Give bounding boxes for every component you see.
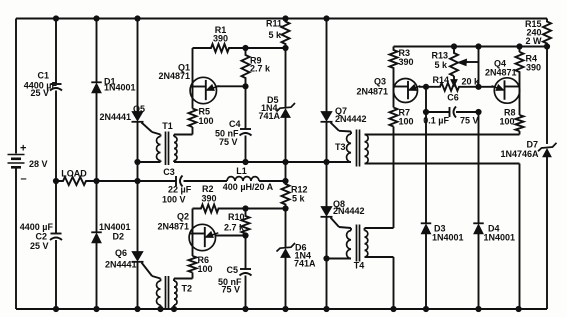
svg-text:1N4001: 1N4001: [104, 83, 136, 93]
wire T1 left winding bottom to column: [138, 161, 161, 163]
resistor R5 100: [189, 107, 214, 128]
svg-text:R10: R10: [228, 212, 245, 222]
svg-text:100: 100: [399, 117, 414, 127]
resistor R14 20k: [426, 75, 480, 91]
wire node to C6 line left: [425, 87, 427, 112]
junction Q8 / T4: [324, 256, 329, 261]
svg-text:75 V: 75 V: [219, 137, 238, 147]
junction dots on top rail: [53, 16, 329, 21]
transformer T3 right winding: [365, 135, 369, 164]
wire Q6 gate lead: [142, 263, 161, 279]
wire rail to R4: [519, 47, 521, 53]
wire R6 to T2: [192, 273, 194, 279]
resistor R11 5k: [266, 19, 290, 49]
svg-text:T3: T3: [335, 142, 346, 152]
wire mid rail to Q8 anode: [326, 162, 328, 207]
wire Q1 base column: [192, 76, 194, 109]
junction R13 top: [451, 44, 456, 49]
wire D1 column top: [96, 19, 98, 83]
svg-text:LOAD: LOAD: [61, 169, 87, 179]
svg-text:0.1 µF: 0.1 µF: [423, 116, 449, 126]
diode D3 1N4001: [421, 223, 464, 242]
svg-text:25 V: 25 V: [30, 241, 49, 251]
wire Q5 anode column: [137, 19, 139, 112]
resistor R1 390: [193, 25, 246, 52]
svg-text:1N4746A: 1N4746A: [500, 149, 539, 159]
svg-text:2N4442: 2N4442: [333, 206, 365, 216]
svg-text:1N4001: 1N4001: [484, 233, 516, 243]
wire Q7 cathode to mid rail: [326, 122, 328, 162]
wire R11 node to D5: [285, 48, 287, 108]
wire Q2 emitter lead: [216, 235, 246, 237]
wire mid rail to L1 node: [285, 162, 287, 181]
battery B1 28 V: [8, 143, 48, 186]
svg-text:T1: T1: [162, 121, 173, 131]
svg-text:390: 390: [202, 194, 217, 204]
transformer T2 left winding: [157, 279, 161, 310]
transformer T2 core: [166, 276, 169, 309]
svg-text:1N4001: 1N4001: [432, 233, 464, 243]
UJT Q2 2N4871: [157, 212, 218, 251]
junction R2 / R10: [243, 206, 248, 211]
capacitor C5 50nF 75V: [218, 265, 252, 295]
svg-text:C5: C5: [226, 265, 238, 275]
wire C2 column top: [55, 181, 57, 234]
wire C1 to load rail: [55, 91, 57, 182]
wire R7 to T4 column: [393, 127, 395, 229]
wire Q7 gate lead: [331, 123, 352, 132]
svg-text:5 k: 5 k: [434, 60, 448, 70]
resistor R10 2.7k: [224, 209, 250, 236]
wire R1 node to R11 node: [246, 47, 286, 49]
junction Q1 emitter node: [243, 84, 248, 89]
wiper arrow of R14: [451, 76, 457, 86]
zener diode D6 1N4741A: [277, 243, 317, 269]
resistor R4 390: [516, 52, 542, 78]
svg-text:400 µH/20 A: 400 µH/20 A: [223, 182, 274, 192]
wire T4 right top to R7: [365, 228, 394, 231]
wire D2 to bottom rail: [96, 243, 98, 310]
svg-text:2N4441: 2N4441: [105, 260, 137, 270]
transformer T4 core: [357, 225, 360, 262]
svg-text:390: 390: [399, 57, 414, 67]
wire Q8 gate lead: [331, 218, 352, 229]
svg-text:T2: T2: [182, 284, 193, 294]
svg-text:C3: C3: [163, 167, 175, 177]
svg-text:R14: R14: [432, 75, 449, 85]
wire C2 to bottom rail: [55, 240, 57, 309]
wire Q7 anode column: [326, 19, 328, 112]
wire Q8 cathode down: [326, 217, 328, 259]
svg-text:L1: L1: [236, 166, 247, 176]
svg-text:2N4442: 2N4442: [335, 114, 367, 124]
svg-text:22 µF: 22 µF: [168, 185, 192, 195]
transformer T3 core: [357, 130, 360, 167]
resistor R6 100: [189, 255, 213, 274]
wire R12 node to D6: [285, 209, 287, 248]
resistor R7 100: [390, 108, 414, 127]
wire load rail to C3: [97, 180, 177, 182]
SCR Q5 2N4441: [99, 104, 145, 122]
svg-text:75 V: 75 V: [460, 116, 479, 126]
svg-text:R2: R2: [202, 184, 214, 194]
junction R15 bottom: [544, 44, 549, 49]
capacitor C3 22uF 100V: [162, 167, 192, 205]
junction C1-C2 / load rail: [53, 178, 58, 183]
resistor R8 100: [499, 108, 523, 132]
wire R6 jog to T2 winding: [174, 278, 193, 280]
resistor LOAD: [56, 169, 97, 186]
svg-text:390: 390: [526, 63, 541, 73]
junction L1 / R12: [283, 178, 288, 183]
wire Q4 base column: [519, 78, 521, 116]
wire D6 to bottom rail: [285, 258, 287, 310]
capacitor C1 4400uF 25V: [24, 71, 62, 99]
transformer T1 left winding: [157, 121, 173, 162]
svg-text:Q5: Q5: [133, 104, 145, 114]
svg-text:–: –: [21, 173, 27, 185]
junction Q3 emitter node: [423, 84, 428, 89]
junction Q5 cathode / T1: [135, 159, 140, 164]
junction dots on bottom rail: [53, 306, 521, 311]
transformer T1 core: [166, 132, 169, 166]
UJT Q4 2N4871: [485, 59, 520, 104]
wire Q5 gate lead: [142, 123, 161, 135]
wire Q3 base column: [393, 78, 395, 108]
capacitor C4 50nF 75V: [215, 119, 252, 147]
wire C6 right lead: [456, 111, 479, 113]
junction C4 / mid rail: [243, 159, 248, 164]
svg-text:28 V: 28 V: [29, 159, 48, 169]
transformer T4 right winding: [354, 231, 368, 271]
resistor R12 5k: [282, 181, 308, 209]
svg-text:4400 µF: 4400 µF: [20, 222, 54, 232]
svg-text:D7: D7: [526, 140, 538, 150]
svg-text:5 k: 5 k: [268, 30, 282, 40]
wire C3 to L1: [184, 180, 228, 182]
transformer T4 left winding: [327, 228, 352, 259]
svg-text:100: 100: [499, 117, 514, 127]
resistor R9 2.7k: [242, 48, 272, 86]
diode D1 1N4001: [91, 77, 135, 93]
svg-text:C1: C1: [37, 71, 49, 81]
svg-text:+: +: [20, 143, 26, 155]
wire T3 right bottom lead: [365, 163, 520, 165]
SCR Q8 2N4442: [321, 199, 365, 217]
wire R2 corner: [192, 209, 194, 229]
wire C4 to mid rail: [245, 136, 247, 163]
junction D5 column / mid rail: [283, 159, 288, 164]
wire T1 right bottom rail: [174, 161, 351, 163]
svg-text:2N4871: 2N4871: [158, 71, 190, 81]
wire Q2 base column: [192, 228, 194, 256]
wire T3 right top to R8: [365, 134, 520, 136]
wire R2 node to R12 node: [246, 208, 286, 210]
wire battery column lower: [15, 169, 17, 310]
diode D4 1N4001: [473, 223, 515, 242]
svg-text:2N4871: 2N4871: [485, 68, 517, 78]
wire upper right rail: [394, 46, 548, 48]
wire L1 to node: [259, 180, 286, 182]
svg-text:2.7 k: 2.7 k: [224, 223, 245, 233]
wire R1 corner: [192, 48, 194, 76]
svg-text:R5: R5: [199, 107, 211, 117]
wire Q5 cathode to node: [137, 122, 139, 162]
svg-text:C4: C4: [229, 119, 241, 129]
wire D3 to bottom rail: [425, 234, 427, 310]
svg-text:100: 100: [199, 116, 214, 126]
svg-text:Q3: Q3: [374, 77, 386, 87]
wire C6 right node down to D4: [478, 112, 480, 224]
svg-text:2.7 k: 2.7 k: [250, 64, 271, 74]
wire D1 to load rail: [96, 93, 98, 182]
wire Q4 emitter lead: [479, 86, 495, 88]
svg-text:25 V: 25 V: [30, 88, 49, 98]
wire R10 node to C5: [245, 236, 247, 270]
svg-text:Q2: Q2: [177, 212, 189, 222]
wire Q8 column to bottom rail: [326, 259, 328, 310]
svg-text:100 V: 100 V: [162, 195, 186, 205]
svg-text:R11: R11: [266, 19, 282, 29]
wire C5 to bottom rail: [245, 276, 247, 310]
svg-text:Q6: Q6: [115, 248, 127, 258]
junction Q7 column / mid rail: [324, 159, 329, 164]
capacitor C2 4400uF 25V: [20, 222, 62, 251]
zener diode D5 1N4741A: [258, 95, 295, 121]
UJT Q3 2N4871: [356, 77, 420, 103]
wire Q6 cathode to bottom rail: [137, 262, 139, 309]
svg-text:741A: 741A: [258, 111, 280, 121]
resistor R2 390: [193, 184, 246, 213]
wire T3 bottom to bottom rail: [518, 164, 521, 310]
svg-text:2 W: 2 W: [525, 36, 542, 46]
svg-text:C6: C6: [447, 93, 459, 103]
svg-text:5 k: 5 k: [292, 194, 306, 204]
junction wiper return: [476, 44, 481, 49]
svg-text:D2: D2: [113, 232, 125, 242]
wire R5 to T1: [192, 127, 194, 135]
wire R3 corner: [393, 47, 395, 50]
wire D5 to mid rail: [285, 118, 287, 163]
potentiometer R13 5k: [431, 47, 478, 87]
inductor L1 400uH/20A: [223, 166, 274, 192]
junction load rail / column: [135, 178, 140, 183]
svg-text:2N4441: 2N4441: [99, 112, 131, 122]
wire Q1 emitter lead: [217, 85, 246, 87]
wire T4 right bottom: [365, 257, 394, 309]
wire C1 column top: [55, 19, 57, 85]
junction C6 right: [476, 109, 481, 114]
wire R15 node down to D7: [546, 47, 548, 145]
wire T1 right top to R5: [174, 134, 193, 136]
junction C6 left: [423, 109, 428, 114]
SCR Q7 2N4442: [321, 106, 367, 124]
svg-text:75 V: 75 V: [221, 285, 240, 295]
wire R8 to T3 lead: [518, 131, 521, 135]
SCR Q6 2N4441: [105, 248, 144, 270]
wire D2 column: [96, 181, 98, 233]
wire C6 node down to D3: [425, 112, 427, 224]
junction R11 / D5 column: [283, 45, 288, 50]
svg-text:2N4871: 2N4871: [356, 87, 388, 97]
capacitor C6 0.1uF 75V: [423, 93, 478, 126]
wire column to Q6 anode: [137, 181, 139, 252]
wire battery column upper: [15, 19, 17, 154]
transformer T1 right winding: [174, 135, 177, 163]
UJT Q1 2N4871: [158, 63, 219, 104]
transformer T3 left winding: [335, 132, 351, 162]
wire Q3 emitter lead: [419, 86, 426, 88]
junction R12 / R2 line: [283, 206, 288, 211]
junction R1 / R9: [243, 45, 248, 50]
resistor R3 390: [390, 48, 414, 78]
wire top supply rail: [16, 18, 547, 20]
junction R14 right node: [476, 84, 481, 89]
svg-text:1N4001: 1N4001: [99, 222, 131, 232]
wire bottom return rail: [16, 308, 547, 310]
transformer T2 right winding: [174, 279, 192, 310]
zener diode D7 1N4746A: [500, 140, 556, 160]
svg-text:390: 390: [213, 34, 228, 44]
wire C6 left lead: [426, 111, 450, 113]
junction R4 top: [517, 44, 522, 49]
wire D4 to bottom rail: [478, 234, 480, 310]
svg-text:100: 100: [198, 264, 213, 274]
resistor R15 240 2W: [525, 19, 551, 47]
junction D1-D2 / load rail: [94, 178, 99, 183]
wire R9 node to C4: [245, 86, 247, 129]
svg-text:C2: C2: [35, 232, 47, 242]
diode D2 1N4001: [91, 222, 130, 243]
svg-text:R13: R13: [431, 51, 448, 61]
junction Q2 emitter node: [243, 233, 248, 238]
wire Q5 column to load rail: [137, 162, 139, 181]
wire D7 to bottom rail: [546, 157, 548, 309]
svg-text:2N4871: 2N4871: [157, 222, 189, 232]
svg-text:T4: T4: [354, 261, 365, 271]
svg-text:741A: 741A: [294, 259, 316, 269]
